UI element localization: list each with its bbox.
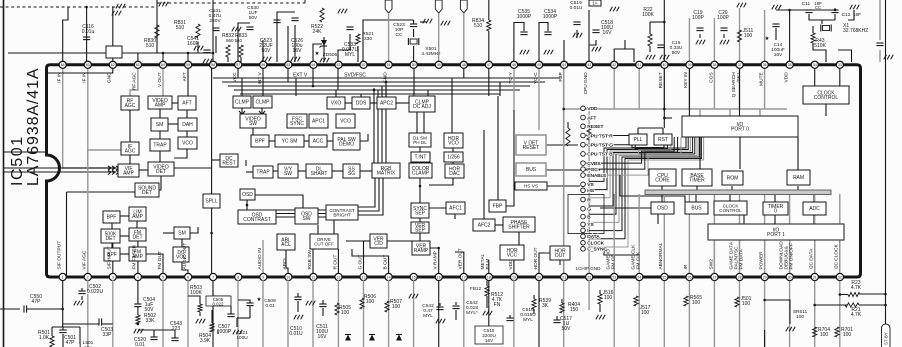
- resistor R22: [642, 7, 654, 46]
- node CVBS: [581, 161, 602, 167]
- svg-text:BUS: BUS: [526, 167, 537, 173]
- wire: [589, 40, 596, 45]
- pin 47: [485, 61, 492, 68]
- block SM (video): [151, 118, 168, 131]
- svg-text:BPF: BPF: [107, 215, 117, 221]
- capacitor C519: [573, 22, 580, 25]
- page border line (left): [3, 0, 5, 347]
- node ENABLE: [581, 173, 608, 179]
- svg-text:CLMP: CLMP: [235, 100, 250, 106]
- wire - ABCL: [286, 250, 288, 277]
- svg-text:ABNORMAL: ABNORMAL: [658, 242, 664, 269]
- svg-text:27: 27: [713, 275, 717, 279]
- svg-text:R OUT: R OUT: [332, 255, 338, 270]
- block I/O PORT 0: [682, 116, 798, 137]
- svg-text:510: 510: [146, 43, 155, 49]
- svg-text:SW: SW: [302, 216, 310, 222]
- svg-text:ENABLE: ENABLE: [587, 173, 607, 179]
- wire: [313, 44, 322, 62]
- block FBP: [489, 200, 506, 212]
- svg-text:22: 22: [587, 275, 591, 279]
- ground: [423, 19, 432, 24]
- pin 3 (SIF INPUT): [107, 246, 117, 280]
- block D1 SM PH DL: [409, 133, 431, 147]
- svg-text:33: 33: [838, 63, 842, 67]
- svg-text:C/D: C/D: [374, 241, 383, 247]
- svg-text:AGC: AGC: [125, 103, 136, 109]
- svg-text:SW: SW: [249, 121, 257, 127]
- svg-text:RST: RST: [658, 137, 668, 143]
- svg-text:28: 28: [738, 275, 742, 279]
- svg-text:FBP: FBP: [493, 204, 503, 210]
- ground: [233, 330, 242, 335]
- pin 30 (DOWNLOAD|DEBUG&&|FM ON/OFF): [779, 241, 795, 281]
- wire - left edge input feeds: [4, 151, 47, 153]
- svg-text:30: 30: [788, 275, 792, 279]
- wire: [162, 280, 164, 347]
- ground: [112, 11, 121, 16]
- svg-text:37: 37: [738, 63, 742, 67]
- pin 26 (IR): [683, 264, 693, 280]
- pin 60 (V OUT): [157, 61, 167, 87]
- block I/O PORT 1: [708, 224, 844, 240]
- pin 57 (VCC): [232, 61, 242, 82]
- svg-text:23: 23: [612, 275, 616, 279]
- svg-text:3K: 3K: [542, 303, 549, 309]
- pin 31 (I2C DATA): [809, 248, 819, 281]
- pin 62 (GND): [107, 61, 117, 83]
- ground: [720, 40, 729, 45]
- node CPU TST G: [581, 142, 614, 148]
- wire - R834 branch: [197, 42, 199, 53]
- svg-text:RAM: RAM: [793, 175, 804, 181]
- svg-text:FB12: FB12: [470, 286, 481, 291]
- capacitor C542b: [452, 306, 459, 309]
- block T.INT: [411, 152, 430, 162]
- pin 55: [285, 61, 292, 68]
- diode D (G out): [369, 335, 375, 341]
- wire - R503 net: [188, 296, 200, 304]
- svg-text:FM CLK: FM CLK: [636, 251, 642, 269]
- svg-text:29: 29: [763, 275, 767, 279]
- ground: [203, 59, 212, 64]
- ground: [884, 55, 893, 60]
- wire: [172, 102, 178, 104]
- block VER RAMP: [412, 241, 430, 255]
- CPU data bus bar: [645, 190, 831, 195]
- svg-text:FM FILTER: FM FILTER: [132, 245, 138, 270]
- dashed bus boundary (top-left): [0, 6, 157, 8]
- ground: [850, 5, 859, 10]
- svg-text:1.0K: 1.0K: [39, 335, 50, 341]
- svg-text:AFT: AFT: [587, 115, 596, 121]
- svg-text:DET: DET: [106, 236, 116, 242]
- svg-text:26: 26: [688, 275, 692, 279]
- block 500K DET: [101, 229, 120, 243]
- svg-text:★: ★: [257, 296, 262, 303]
- ground: [74, 301, 83, 306]
- block DAH: [178, 118, 197, 131]
- wire: [713, 18, 715, 62]
- svg-text:1000P: 1000P: [517, 14, 532, 20]
- wire - gray horizontal CPU rail: [564, 108, 787, 110]
- diode D (R out): [345, 335, 351, 341]
- svg-text:AFC1: AFC1: [449, 206, 462, 212]
- svg-text:ADC: ADC: [809, 206, 820, 212]
- wire - sync chain: [429, 207, 446, 209]
- wire - sound IF chain: [112, 243, 114, 277]
- svg-text:T.INT: T.INT: [415, 155, 427, 161]
- block DDS: [352, 97, 370, 109]
- pin 17 (VER OUT): [458, 248, 468, 280]
- block V DET RESET: [516, 135, 546, 155]
- block VCO (IF): [178, 137, 197, 149]
- ground: [441, 21, 450, 26]
- wire - IF IN b: [87, 65, 89, 165]
- svg-text:38: 38: [713, 63, 717, 67]
- svg-text:AFC2: AFC2: [478, 223, 491, 229]
- svg-text:330: 330: [364, 36, 372, 42]
- svg-text:42: 42: [612, 63, 616, 67]
- svg-text:RESET: RESET: [523, 145, 540, 151]
- wire: [48, 65, 113, 73]
- pin 10 (ABCL): [282, 257, 292, 281]
- block AFT: [178, 96, 196, 110]
- svg-text:SIF OUTPUT: SIF OUTPUT: [57, 241, 63, 270]
- resistor R404: [560, 302, 580, 313]
- block SPLL: [203, 194, 220, 208]
- wire - top-left bus to pin 7: [8, 52, 213, 54]
- block CONTRAST BRIGHT: [326, 205, 358, 220]
- svg-text:MYL: MYL: [345, 52, 356, 58]
- block BUS (gray): [516, 163, 546, 176]
- pin 28 (GAME DATA|PAL/NTSC|FM DATA): [728, 241, 744, 280]
- wire - step jog pins 614-639: [614, 49, 634, 62]
- svg-text:G: G: [587, 207, 591, 213]
- wire - port0 feeds: [699, 109, 701, 116]
- wire: [51, 327, 53, 336]
- node CPU TST B: [581, 152, 613, 158]
- wire drops to blocks: [241, 78, 243, 96]
- block RF AGC: [121, 96, 139, 110]
- ground: [596, 315, 605, 320]
- svg-text:5: 5: [162, 275, 164, 279]
- svg-text:3: 3: [112, 275, 114, 279]
- svg-text:1/256: 1/256: [447, 155, 460, 161]
- resistor R521: [356, 34, 360, 44]
- svg-text:100: 100: [641, 310, 650, 316]
- svg-text:ACC: ACC: [313, 139, 324, 145]
- wire - right margin vertical: [885, 0, 887, 324]
- svg-text:HS VS: HS VS: [524, 184, 538, 190]
- svg-text:100: 100: [604, 295, 613, 301]
- pin 59 (AFT): [182, 61, 192, 81]
- wire: [357, 46, 359, 62]
- resistor R43: [811, 33, 827, 49]
- resistor R503: [190, 285, 202, 312]
- ground: [134, 329, 143, 334]
- wire - SIF OUTPUT: [66, 192, 68, 277]
- wire: [650, 21, 664, 23]
- svg-text:0: 0: [774, 209, 777, 215]
- connector tag DN1: [385, 0, 392, 13]
- wire - DC REST link: [212, 159, 220, 161]
- ground: [646, 55, 655, 60]
- svg-text:OUT: OUT: [555, 253, 566, 259]
- resistor R504: [199, 323, 214, 344]
- node AFT: [581, 115, 597, 121]
- connector tag DN2: [435, 0, 442, 13]
- wire - hs vs link: [547, 185, 580, 187]
- pin 64 (IF IN): [57, 61, 67, 83]
- svg-text:59: 59: [186, 63, 190, 67]
- svg-text:PORT 0: PORT 0: [731, 127, 749, 133]
- wire - FB12: [488, 280, 490, 330]
- svg-text:17: 17: [462, 275, 466, 279]
- node DATA: [581, 234, 601, 240]
- pin 5 (FM OUT): [157, 251, 167, 281]
- wire: [739, 8, 741, 62]
- block CLOCK CONTROL (osc): [803, 86, 849, 104]
- ground: [520, 50, 529, 55]
- svg-text:21: 21: [562, 275, 566, 279]
- resistor J517: [634, 296, 651, 316]
- capacitor C517: [553, 316, 572, 332]
- svg-text:I2C CLOCK: I2C CLOCK: [834, 243, 840, 269]
- pin 11 (RGB SW): [307, 250, 317, 281]
- capacitor C14: [772, 24, 779, 27]
- capacitor C20: [717, 10, 729, 31]
- svg-text:FILM: FILM: [485, 259, 491, 270]
- ground: [338, 9, 347, 14]
- wire - port0 to rom/ram: [739, 137, 741, 169]
- svg-text:CC: CC: [396, 32, 403, 38]
- svg-text:25: 25: [662, 275, 666, 279]
- block TIMER 0: [763, 202, 788, 215]
- wire: [237, 280, 239, 347]
- wire: [129, 110, 131, 142]
- nested wires port0 upper terminals: [586, 136, 664, 148]
- svg-text:RGB SW: RGB SW: [307, 250, 313, 270]
- svg-text:VIF AGC: VIF AGC: [82, 250, 88, 269]
- wire - far right top: [879, 0, 881, 40]
- wire - gray long vertical 564: [563, 65, 565, 277]
- wire - CLMP to VIDEO SW arrows: [241, 108, 243, 114]
- svg-text:510: 510: [176, 25, 185, 31]
- wire - cpu bus bar connections: [661, 186, 663, 190]
- svg-text:SEP: SEP: [415, 211, 426, 217]
- wire - ver out pin: [455, 252, 464, 277]
- resistor J516: [598, 290, 614, 304]
- svg-text:VCO: VCO: [448, 141, 459, 147]
- svg-text:223: 223: [172, 326, 181, 332]
- pin 33: [836, 61, 843, 68]
- wire: [287, 280, 289, 347]
- svg-text:DAC: DAC: [449, 171, 460, 177]
- capacitor C12: [831, 10, 838, 13]
- pin 56 (INT V): [257, 61, 267, 84]
- svg-text:100: 100: [341, 310, 350, 316]
- ground: [696, 40, 705, 45]
- svg-text:FM ON/OFF: FM ON/OFF: [789, 243, 795, 269]
- pin 4 (FM FILTER): [132, 245, 142, 281]
- block APC1 (a): [309, 114, 328, 128]
- svg-text:16V: 16V: [293, 48, 303, 54]
- pin 2 (VIF AGC): [82, 250, 92, 281]
- block FM DET: [129, 228, 146, 241]
- svg-text:BPF: BPF: [255, 139, 265, 145]
- pin 38 (COS): [708, 61, 718, 83]
- capacitor C511: [316, 304, 328, 340]
- svg-text:V RAMP: V RAMP: [433, 251, 439, 269]
- pin 22: [586, 273, 593, 280]
- svg-text:ZD505: ZD505: [323, 52, 338, 58]
- wire: [159, 151, 161, 162]
- wire: [563, 280, 565, 347]
- capacitor C510: [289, 297, 303, 337]
- ground: [544, 50, 553, 55]
- wire - fbp: [497, 96, 499, 200]
- svg-text:OSD: OSD: [657, 206, 668, 212]
- svg-text:YS: YS: [587, 222, 594, 228]
- svg-text:YC-C: YC-C: [533, 72, 539, 84]
- pin 42: [611, 61, 618, 68]
- wire - crystal net: [363, 20, 414, 62]
- wire - port1 to bottom pins: [713, 240, 715, 277]
- wire - YC-Y to C535: [514, 23, 524, 63]
- ground: [573, 33, 582, 38]
- svg-text:250V: 250V: [209, 18, 221, 24]
- svg-text:560 560: 560 560: [226, 38, 242, 43]
- block DRIVE CUT OFF: [310, 234, 338, 249]
- svg-text:12: 12: [337, 275, 341, 279]
- node R: [581, 197, 592, 203]
- wire - phase shifter down: [518, 232, 520, 245]
- wire: [159, 176, 161, 190]
- svg-text:150: 150: [570, 307, 579, 313]
- wire - hor vco chain: [452, 148, 454, 152]
- wire: [538, 280, 540, 347]
- ground: [592, 47, 601, 52]
- svg-text:34: 34: [813, 63, 817, 67]
- svg-text:CONTROL: CONTROL: [719, 208, 742, 213]
- wire: [129, 155, 131, 164]
- svg-text:SHIFTER: SHIFTER: [508, 225, 530, 231]
- ground: [660, 55, 669, 60]
- svg-text:TRAP: TRAP: [256, 170, 270, 176]
- wire - FM filter down: [137, 280, 139, 304]
- resistor R565: [684, 295, 702, 306]
- wire - osd/bus drops: [604, 247, 640, 255]
- svg-text:C_SYNC: C_SYNC: [587, 247, 607, 253]
- svg-text:HOR OUT: HOR OUT: [533, 247, 539, 269]
- ground: [320, 58, 329, 63]
- block LIM AMP: [129, 207, 146, 221]
- wire: [187, 53, 189, 62]
- pin 51 (GND): [382, 61, 392, 83]
- svg-text:DET: DET: [142, 190, 152, 196]
- ground: [786, 327, 795, 332]
- svg-text:C12: C12: [842, 12, 851, 18]
- block HOR DAC: [445, 164, 464, 178]
- resistor SR511: [789, 310, 791, 324]
- IC IC501 LA76938A/41A body outline: [47, 65, 861, 277]
- block DC VOL: [173, 247, 189, 262]
- svg-text:IF IN: IF IN: [82, 72, 88, 83]
- block ROM: [722, 171, 743, 185]
- svg-text:31: 31: [813, 275, 817, 279]
- wire - SIF input down: [112, 280, 114, 324]
- svg-text:IC501: IC501: [9, 135, 26, 186]
- wire: [190, 227, 198, 233]
- svg-text:MATRIX: MATRIX: [377, 171, 396, 177]
- wire - SR511 net: [765, 300, 790, 310]
- svg-text:IR: IR: [683, 264, 689, 269]
- svg-text:9: 9: [262, 275, 264, 279]
- node RESET: [581, 124, 604, 130]
- resistor R23: [848, 280, 862, 297]
- svg-text:55: 55: [286, 63, 290, 67]
- svg-text:33K: 33K: [146, 318, 156, 324]
- block OSD (cpu): [651, 202, 674, 214]
- svg-text:DDS: DDS: [356, 101, 367, 107]
- wire - right resistor column nets: [599, 290, 601, 294]
- block YC SM: [275, 135, 304, 147]
- wire: [513, 280, 515, 347]
- svg-text:18: 18: [487, 275, 491, 279]
- svg-text:SM: SM: [156, 122, 164, 128]
- wire - SIF output to C550: [27, 280, 63, 309]
- block COLOR CLAMP: [409, 163, 432, 178]
- wire - pin2 up through C116: [86, 7, 88, 62]
- wire: [764, 10, 766, 62]
- block AFC2 (b): [473, 219, 495, 231]
- svg-text:AMP: AMP: [155, 103, 167, 109]
- pin 7: [210, 273, 217, 280]
- wire: [137, 53, 139, 62]
- resistor R512: [485, 286, 503, 308]
- svg-text:PORT 1: PORT 1: [767, 232, 785, 238]
- resistor J501: [735, 296, 752, 307]
- block BPF 2: [104, 248, 120, 261]
- capacitor C542: [436, 307, 443, 310]
- svg-text:41: 41: [637, 63, 641, 67]
- node C_SYNC: [581, 247, 608, 253]
- wire - gray vertical 589: [588, 110, 590, 277]
- wire - metal film pin: [488, 260, 490, 277]
- wire - VXO chain: [345, 102, 352, 104]
- svg-text:18P: 18P: [853, 12, 861, 17]
- pin 53: [335, 61, 342, 68]
- pin 35 (VDD): [784, 61, 794, 82]
- wire: [262, 40, 264, 62]
- svg-text:VCO: VCO: [182, 141, 193, 147]
- svg-text:APC1: APC1: [312, 119, 325, 125]
- wire: [174, 149, 187, 158]
- block 1/256: [444, 152, 463, 162]
- svg-text:4: 4: [137, 275, 139, 279]
- block VIDEO AMP: [148, 96, 172, 109]
- wire: [338, 34, 350, 62]
- wire - luma delay chain: [245, 160, 247, 166]
- svg-text:20: 20: [537, 275, 541, 279]
- wire - key/cos direct: [688, 65, 690, 116]
- svg-text:EXT V: EXT V: [293, 73, 308, 79]
- wire - OSD contrast to contrast/bright: [276, 209, 326, 211]
- svg-text:CONTROL: CONTROL: [814, 95, 839, 101]
- svg-text:60: 60: [161, 63, 165, 67]
- svg-text:0.01u: 0.01u: [82, 29, 95, 35]
